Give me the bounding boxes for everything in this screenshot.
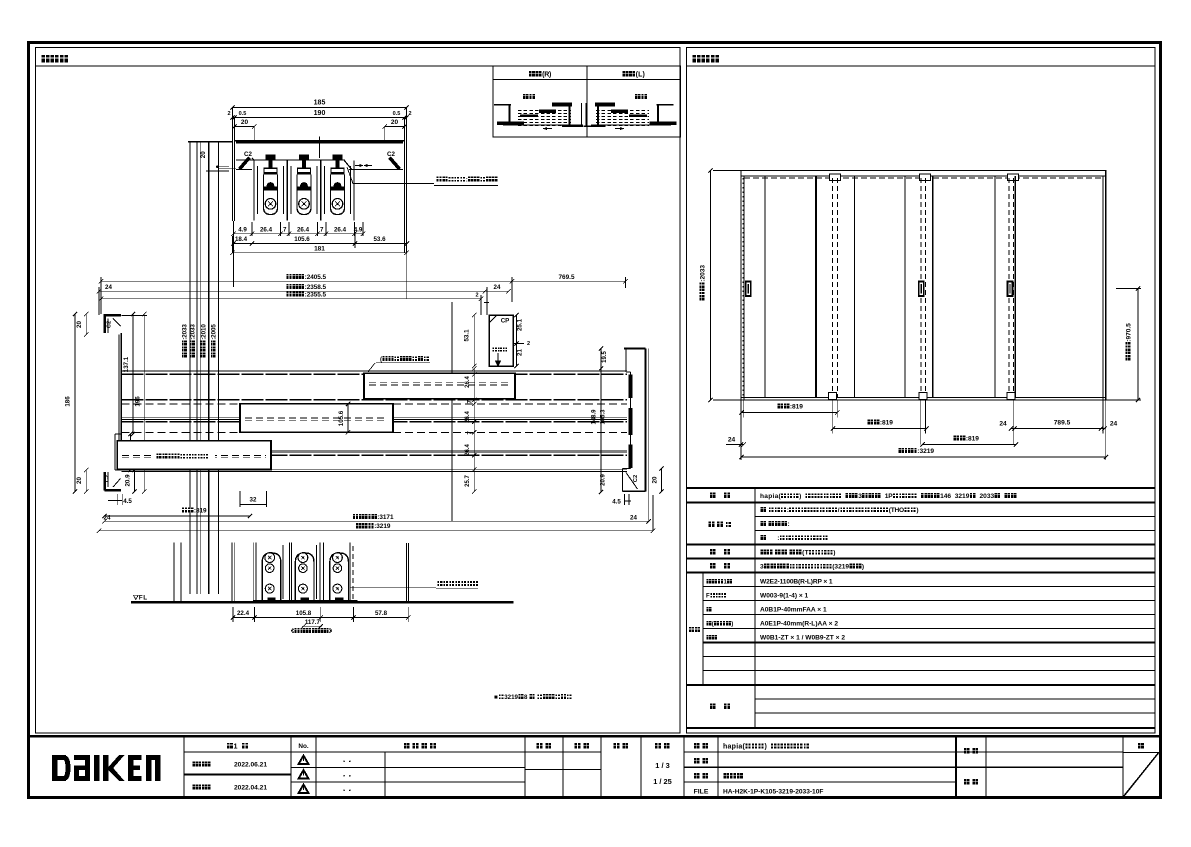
svg-text:20.9: 20.9 xyxy=(601,474,607,486)
svg-text::: : xyxy=(788,521,790,528)
svg-text:C2: C2 xyxy=(387,151,395,158)
svg-text:146: 146 xyxy=(940,493,951,500)
spec table grid xyxy=(687,488,1156,728)
svg-text::819: :819 xyxy=(966,436,979,443)
svg-text:1 / 25: 1 / 25 xyxy=(653,777,672,786)
svg-text:hapia(: hapia( xyxy=(723,744,746,751)
title block: approval headers xyxy=(537,743,672,786)
svg-text::2033: :2033 xyxy=(700,265,707,282)
elevation: hidden door edges (dashed) xyxy=(833,178,1014,398)
svg-text:hapia(: hapia( xyxy=(760,493,781,500)
svg-text:HA-H2K-1P-K105-3219-2033-10F: HA-H2K-1P-K105-3219-2033-10F xyxy=(723,789,823,796)
svg-text:): ) xyxy=(833,550,835,557)
svg-text::: : xyxy=(466,177,468,184)
svg-text:24: 24 xyxy=(105,284,112,291)
svg-text:0.5: 0.5 xyxy=(393,111,401,117)
svg-text:19.5: 19.5 xyxy=(602,351,608,363)
svg-text:53.6: 53.6 xyxy=(373,236,386,243)
svg-text:): ) xyxy=(862,564,864,571)
svg-text:W003-9(1-4) × 1: W003-9(1-4) × 1 xyxy=(760,593,809,600)
svg-text::2405.5: :2405.5 xyxy=(305,274,327,281)
elevation: solid door edges xyxy=(765,176,1015,398)
svg-text:32: 32 xyxy=(250,497,257,504)
plan: left jamb dimensions xyxy=(65,312,147,522)
svg-text:190: 190 xyxy=(314,110,326,117)
svg-text:C2: C2 xyxy=(244,151,252,158)
rail section: dimensions below xyxy=(230,222,409,255)
svg-text:2022.04.21: 2022.04.21 xyxy=(234,785,267,792)
svg-text::2010: :2010 xyxy=(200,324,207,340)
svg-text:24: 24 xyxy=(494,284,501,291)
plan: right jamb profile xyxy=(623,349,646,492)
svg-text:105.8: 105.8 xyxy=(296,610,312,617)
right panel frame (front view) xyxy=(687,48,1156,734)
svg-text:0.5: 0.5 xyxy=(239,111,247,117)
elevation: door handles xyxy=(746,282,1013,297)
svg-text:26.4: 26.4 xyxy=(465,376,471,388)
title block: revision columns xyxy=(192,742,436,793)
plan: right jamb dimensions xyxy=(592,346,664,531)
svg-text:117.7: 117.7 xyxy=(305,619,321,626)
svg-text:1: 1 xyxy=(234,742,238,751)
svg-text:7: 7 xyxy=(283,227,287,234)
svg-text:24: 24 xyxy=(728,437,736,444)
plan: door leaf B (middle track) xyxy=(240,402,393,435)
svg-text:20: 20 xyxy=(241,119,249,126)
svg-text:185: 185 xyxy=(314,100,326,107)
plan: door leaf A (top track) xyxy=(364,373,515,398)
svg-text::819: :819 xyxy=(880,420,893,427)
svg-text:(3219: (3219 xyxy=(832,564,849,571)
svg-text:2: 2 xyxy=(475,293,478,299)
DAIKEN logo xyxy=(52,755,161,781)
plan: door leaf C (bottom track) xyxy=(117,441,271,470)
svg-text:): ) xyxy=(731,622,733,628)
top rail profile body xyxy=(232,137,406,300)
svg-text:■: ■ xyxy=(494,694,498,701)
floor rail callout フラットレール xyxy=(350,581,478,588)
svg-text:53.1: 53.1 xyxy=(464,329,471,342)
plan: top dimension rows xyxy=(97,274,628,522)
title block: name / file rows xyxy=(694,743,1144,795)
svg-text:3219: 3219 xyxy=(955,493,970,500)
svg-text:21: 21 xyxy=(517,349,524,356)
rail callout 吊戸レール xyxy=(347,167,498,185)
svg-text:(L): (L) xyxy=(636,72,645,79)
svg-text:4.5: 4.5 xyxy=(612,499,621,506)
svg-text:4.5: 4.5 xyxy=(123,498,132,505)
svg-text::2033: :2033 xyxy=(190,324,197,340)
hanger rollers (3) with door panel tops xyxy=(254,154,287,220)
svg-text::2355.5: :2355.5 xyxy=(305,291,327,298)
svg-text::3219: :3219 xyxy=(374,523,391,530)
spec table sub labels xyxy=(706,579,733,640)
direction box 右引(R) xyxy=(493,66,587,137)
svg-text:26.4: 26.4 xyxy=(260,227,273,234)
svg-text:/: / xyxy=(838,507,840,514)
elevation: dim row 戸幅819 (2) + 789.5 xyxy=(831,419,1118,430)
svg-text:C2: C2 xyxy=(107,321,113,328)
svg-text:(: ( xyxy=(712,622,714,628)
svg-text:2: 2 xyxy=(527,341,530,347)
spec table row labels xyxy=(689,493,731,709)
svg-text:3219: 3219 xyxy=(504,694,518,701)
svg-text:26.4: 26.4 xyxy=(465,411,471,423)
svg-text:3: 3 xyxy=(858,493,862,500)
floor section: ground line and FL marker xyxy=(131,595,514,603)
svg-text:25.1: 25.1 xyxy=(517,318,524,331)
svg-text::2358.5: :2358.5 xyxy=(305,284,327,291)
elevation: door frame outline xyxy=(741,171,1106,401)
plan: right vertical dim chain 26.4/7 xyxy=(465,366,477,493)
svg-text:22.4: 22.4 xyxy=(237,610,250,617)
plan: left jamb profile xyxy=(105,315,148,490)
elevation: dim row 戸幅819 (1) xyxy=(739,403,839,414)
plan: bottom dimension rows xyxy=(97,514,655,533)
svg-text:8: 8 xyxy=(524,694,528,701)
svg-text:24: 24 xyxy=(630,515,637,522)
floor section: door bottom edges xyxy=(174,543,408,602)
elevation: floor guides xyxy=(829,393,1016,400)
svg-text:7: 7 xyxy=(320,227,324,234)
svg-text:FL: FL xyxy=(139,595,147,602)
svg-text:): ) xyxy=(916,507,918,514)
svg-text:W2E2-1100B(R-L)RP × 1: W2E2-1100B(R-L)RP × 1 xyxy=(760,579,833,586)
svg-text::2033: :2033 xyxy=(182,324,189,340)
svg-text:186: 186 xyxy=(65,396,72,407)
direction box 左引(L) xyxy=(584,66,681,137)
svg-text:181: 181 xyxy=(314,246,325,253)
svg-text:20: 20 xyxy=(200,151,207,158)
plan: 吊元819 and 32 dims xyxy=(102,491,266,518)
note: dimensions marker xyxy=(494,694,572,701)
svg-text:20: 20 xyxy=(76,321,83,328)
elevation: dim row 戸幅819 (3) xyxy=(726,435,1018,446)
left panel frame (cross-section view) xyxy=(36,48,681,734)
svg-text:20: 20 xyxy=(391,119,399,126)
elevation: hanger boxes on top rail xyxy=(830,174,1019,181)
svg-text:105.6: 105.6 xyxy=(338,410,345,426)
plan: door-stop note xyxy=(368,356,430,372)
svg-text:A0B1P-40mmFAA × 1: A0B1P-40mmFAA × 1 xyxy=(760,607,827,614)
svg-text:18.4: 18.4 xyxy=(235,236,248,243)
svg-text::: : xyxy=(787,507,789,514)
svg-text:20.9: 20.9 xyxy=(125,474,132,487)
svg-text:2: 2 xyxy=(408,111,411,117)
elevation: bottom dim extension lines xyxy=(741,400,1106,460)
svg-text:26.4: 26.4 xyxy=(334,227,347,234)
plan: CP profile (center piece) xyxy=(464,303,531,369)
svg-text:769.5: 769.5 xyxy=(559,274,575,281)
svg-text:1 / 3: 1 / 3 xyxy=(655,761,669,770)
svg-text:26.4: 26.4 xyxy=(465,444,471,456)
svg-text:57.8: 57.8 xyxy=(375,610,388,617)
svg-text:24: 24 xyxy=(999,421,1007,428)
svg-text:3: 3 xyxy=(760,564,764,571)
svg-text:2033: 2033 xyxy=(980,493,995,500)
svg-text::2005: :2005 xyxy=(211,324,218,340)
rotated height dimension texts xyxy=(182,324,218,358)
svg-text:C2: C2 xyxy=(105,475,111,482)
svg-text:F: F xyxy=(706,594,710,600)
floor guides (3) xyxy=(253,553,290,603)
spec table contents xyxy=(760,493,1016,642)
height projection lines xyxy=(188,142,233,595)
elevation: right dim 引手高970.5 xyxy=(1106,286,1141,402)
svg-text:(THO: (THO xyxy=(889,507,904,514)
svg-text:20: 20 xyxy=(76,477,83,484)
elevation: left height dim 枠外高2033 xyxy=(699,168,741,402)
svg-text:): ) xyxy=(765,744,767,751)
svg-text:FILE: FILE xyxy=(694,789,709,796)
svg-text::3171: :3171 xyxy=(377,514,394,521)
title block grid xyxy=(30,736,1160,797)
elevation: dim row 枠外幅3219 xyxy=(739,448,1108,459)
svg-text::3219: :3219 xyxy=(917,448,934,455)
svg-text:A0E1P-40mm(R-L)AA × 2: A0E1P-40mm(R-L)AA × 2 xyxy=(760,621,838,628)
plan: horizontal track lines xyxy=(121,370,627,471)
svg-text:148.9: 148.9 xyxy=(592,409,598,425)
svg-text:789.5: 789.5 xyxy=(1054,420,1071,427)
svg-text:(T: (T xyxy=(802,550,809,557)
top rail section: dimensions above xyxy=(227,100,411,142)
svg-text:2: 2 xyxy=(227,111,230,117)
svg-text:24: 24 xyxy=(1110,421,1118,428)
svg-text:1P: 1P xyxy=(885,493,894,500)
svg-text:W0B1-ZT × 1 / W0B9-ZT × 2: W0B1-ZT × 1 / W0B9-ZT × 2 xyxy=(760,635,845,642)
svg-text:(R): (R) xyxy=(542,72,551,79)
svg-text:20: 20 xyxy=(652,476,659,483)
svg-text:26.4: 26.4 xyxy=(297,227,310,234)
svg-text:25.7: 25.7 xyxy=(465,475,471,487)
small drop dim near rail xyxy=(200,151,236,171)
svg-text::819: :819 xyxy=(194,508,207,515)
floor dims xyxy=(231,607,411,633)
svg-text::970.5: :970.5 xyxy=(1126,323,1133,342)
svg-text:2022.06.21: 2022.06.21 xyxy=(234,762,267,769)
svg-text:105.6: 105.6 xyxy=(294,236,310,243)
svg-text::: : xyxy=(777,535,779,542)
svg-text:No.: No. xyxy=(298,743,309,750)
svg-text:4.9: 4.9 xyxy=(238,227,247,234)
svg-text:196: 196 xyxy=(135,396,142,407)
svg-text::819: :819 xyxy=(790,404,803,411)
svg-text:105.3: 105.3 xyxy=(601,409,607,425)
svg-text:CP: CP xyxy=(501,318,510,325)
svg-text:): ) xyxy=(799,493,801,500)
svg-text:C2: C2 xyxy=(633,475,639,482)
